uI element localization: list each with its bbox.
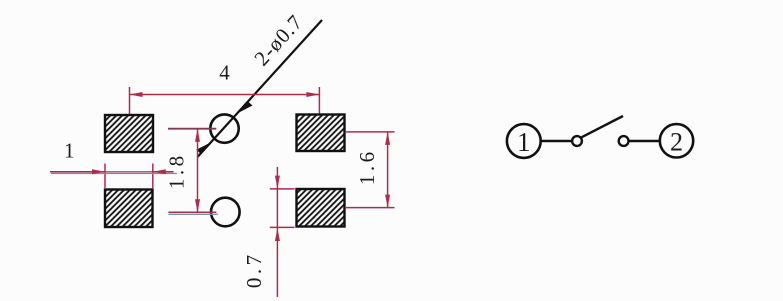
dimension 4 left arrow [130, 92, 143, 97]
svg-text:1.8: 1.8 [165, 152, 189, 189]
wire contact B to terminal 2 [629, 140, 660, 143]
svg-text:2-ø0.7: 2-ø0.7 [249, 10, 307, 71]
dimension 1.6 bottom arrow [385, 195, 390, 208]
dimension 4 left extension line [129, 87, 131, 114]
svg-text:2: 2 [670, 127, 683, 156]
dimension 1 right tail line [153, 171, 174, 173]
dimension 1.6 bottom extension line [345, 207, 395, 209]
svg-text:0.7: 0.7 [242, 251, 266, 288]
pad P3 (top-right hatched pad) [297, 115, 345, 152]
dimension 1 right extension line [152, 164, 154, 189]
dimension 1 right arrow [153, 169, 166, 174]
svg-text:1: 1 [517, 127, 531, 157]
dimension 1.6 dim line [387, 132, 389, 208]
wire terminal 1 to contact A [542, 140, 573, 143]
svg-text:1: 1 [64, 139, 75, 163]
svg-text:4: 4 [219, 61, 230, 85]
leader arrowhead upper [238, 102, 253, 114]
dimension 4 right arrow [306, 92, 319, 97]
hole H2 centerline (blue) [168, 213, 218, 215]
dimension 1.8 bottom extension line [168, 211, 216, 213]
dimension 1 left arrow [92, 169, 105, 174]
leader arrowhead lower [196, 142, 211, 154]
pad P1 (top-left hatched pad) [105, 115, 153, 152]
dimension 1.8 top arrow [195, 129, 200, 142]
dimension 1.6 top arrow [385, 132, 390, 145]
svg-text:1.6: 1.6 [355, 148, 379, 185]
dimension 0.7 bottom extension line [270, 226, 295, 228]
dimension 1.8 bottom arrow [195, 199, 200, 212]
dimension 0.7 down arrow [275, 176, 280, 189]
dimension 0.7 dim line [276, 167, 278, 297]
pad row centerline (blue) [51, 172, 177, 174]
dimension 4 dim line [130, 94, 320, 96]
terminal 2 circle [660, 124, 693, 157]
dimension 1.8 top extension line (hole H1 centerline) [168, 128, 216, 130]
dimension 1 left tail line [50, 171, 105, 173]
dimension 1 middle dim line [105, 171, 153, 173]
dimension 1 left extension line [104, 164, 106, 189]
hole H1 (top mounting hole) [210, 114, 238, 142]
dimension 4 right extension line [318, 87, 320, 114]
pad P4 (bottom-right hatched pad) [297, 189, 345, 227]
terminal 1 circle [507, 124, 541, 158]
leader line for hole diameter callout [198, 20, 323, 157]
dimension 0.7 top extension line [270, 188, 295, 190]
contact B (fixed contact circle) [619, 136, 629, 146]
dimension 0.7 up arrow [275, 228, 280, 241]
pad P2 (bottom-left hatched pad) [105, 190, 153, 228]
switch lever SW1 [582, 116, 624, 137]
dimension 1.6 top extension line [345, 131, 395, 133]
contact A (fixed contact circle) [572, 136, 582, 146]
hole H2 (bottom mounting hole) [211, 198, 240, 227]
dimension 1.8 dim line [197, 129, 199, 213]
